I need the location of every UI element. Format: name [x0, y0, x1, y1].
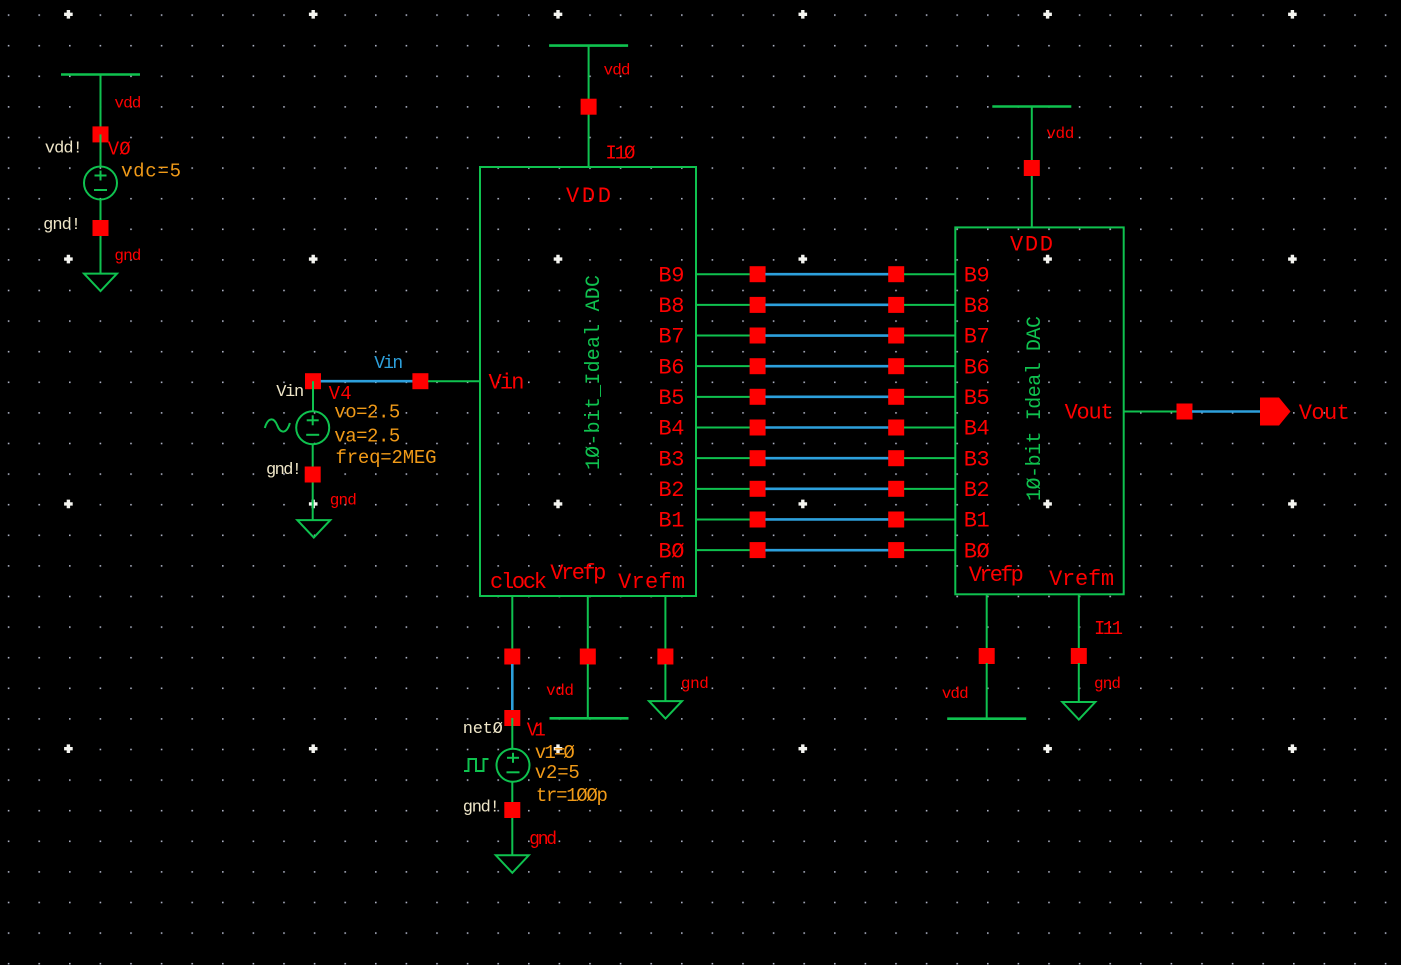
vdd supply symbol (DAC top) — [992, 107, 1071, 228]
junction square B1 right — [888, 512, 904, 528]
wire B4 from ADC — [696, 427, 750, 429]
junction square B7 left — [750, 328, 766, 344]
svg-text:gnd: gnd — [114, 247, 141, 265]
net label gnd! (cream, V1) — [463, 799, 500, 818]
junction square Vrefp (DAC) — [979, 648, 995, 664]
svg-text:B8: B8 — [658, 294, 684, 319]
wire B9 from ADC — [696, 273, 750, 275]
svg-text:netØ: netØ — [463, 720, 503, 739]
junction square B0 right — [888, 542, 904, 558]
svg-text:gnd: gnd — [330, 492, 357, 510]
value label vo=2.5 — [334, 402, 400, 424]
value label v2=5 — [535, 762, 580, 784]
svg-text:B1: B1 — [964, 509, 990, 534]
wire V0 minus — [100, 200, 102, 274]
junction square B0 left — [750, 542, 766, 558]
wire Vrefp stem (ADC) — [587, 596, 589, 657]
svg-text:v1=Ø: v1=Ø — [535, 742, 575, 764]
wire V1 minus — [511, 782, 513, 856]
instance name I10 — [605, 143, 635, 165]
wire B0 from ADC — [696, 549, 750, 551]
wire clock stem — [511, 596, 513, 657]
net label gnd (red, V4 rail) — [330, 492, 357, 510]
net label gnd (red, ADC Vrefm rail) — [681, 675, 709, 693]
svg-text:1Ø-bit_Ideal ADC: 1Ø-bit_Ideal ADC — [583, 275, 606, 470]
svg-text:B1: B1 — [658, 509, 684, 534]
wire B8 from ADC — [696, 304, 750, 306]
sine symbol of V4 — [265, 419, 290, 431]
net label gnd! (cream, V4) — [266, 461, 302, 480]
svg-text:B8: B8 — [964, 294, 990, 319]
net wire B0 (blue) — [765, 549, 888, 552]
pin label B1 (DAC) — [964, 509, 990, 534]
vdd supply symbol (ADC top) — [549, 46, 628, 167]
svg-text:B7: B7 — [964, 325, 990, 350]
pin junction square DAC VDD — [1024, 160, 1040, 176]
net wire clock-net0 (blue) — [511, 664, 514, 718]
junction square B1 left — [750, 512, 766, 528]
svg-text:Vrefp: Vrefp — [969, 563, 1024, 588]
pin label B6 (DAC) — [964, 355, 990, 380]
ground symbol (DAC Vrefm) — [1062, 702, 1095, 720]
wire B3 to DAC — [904, 457, 956, 459]
svg-text:B6: B6 — [964, 355, 990, 380]
wire B6 from ADC — [696, 365, 750, 367]
vdd supply symbol (DAC Vrefp) — [947, 717, 1026, 720]
pin label B7 (ADC) — [658, 325, 684, 350]
wire junction square Vin — [412, 373, 428, 389]
net wire B5 (blue) — [765, 396, 888, 399]
net name label Vin (blue) — [374, 354, 403, 374]
value label freq=2MEG — [336, 447, 437, 469]
svg-text:vdd!: vdd! — [45, 140, 83, 159]
vdd supply symbol (top-left) — [61, 75, 140, 135]
output pin symbol Vout — [1260, 398, 1291, 426]
svg-text:V1: V1 — [527, 720, 546, 742]
svg-text:va=2.5: va=2.5 — [334, 426, 400, 448]
instance name V1 — [527, 720, 546, 742]
svg-text:v2=5: v2=5 — [535, 762, 580, 784]
voltage source V4 (sine) — [296, 411, 329, 444]
svg-text:B2: B2 — [658, 478, 684, 503]
svg-text:B5: B5 — [964, 386, 990, 411]
net wire B3 (blue) — [765, 457, 888, 460]
wire B8 to DAC — [904, 304, 956, 306]
svg-text:Vin: Vin — [276, 383, 304, 402]
wire B7 to DAC — [904, 335, 956, 337]
pin label B5 (DAC) — [964, 386, 990, 411]
wire Vin to ADC — [428, 380, 481, 382]
junction square B6 left — [750, 358, 766, 374]
junction square B5 left — [750, 389, 766, 405]
voltage source V0 (vdc=5) — [84, 167, 117, 200]
wire Vrefp to vdd (DAC) — [986, 663, 988, 719]
svg-text:vdd: vdd — [942, 685, 969, 703]
svg-text:Vin: Vin — [374, 354, 403, 374]
junction square B4 right — [888, 420, 904, 436]
svg-text:BØ: BØ — [658, 539, 684, 564]
pin label B4 (ADC) — [658, 417, 684, 442]
vdd supply symbol (ADC Vrefp) — [550, 717, 629, 720]
junction square B4 left — [750, 420, 766, 436]
junction square B9 left — [750, 266, 766, 282]
svg-text:gnd: gnd — [1094, 675, 1121, 693]
net wire B4 (blue) — [765, 426, 888, 429]
wire junction square V4 plus / Vin corner — [305, 373, 321, 389]
wire V4 plus stem — [312, 381, 314, 411]
pin label B6 (ADC) — [658, 355, 684, 380]
svg-text:VDD: VDD — [566, 184, 611, 209]
svg-text:gnd: gnd — [529, 830, 557, 850]
net label vdd (red, DAC top rail) — [1046, 125, 1074, 143]
net wire B1 (blue) — [765, 518, 888, 521]
pin junction square V4 minus — [305, 467, 321, 483]
pin label Vrefp (ADC) — [550, 561, 606, 586]
net label vdd (red, DAC Vrefp rail) — [942, 685, 969, 703]
svg-text:gnd!: gnd! — [463, 799, 500, 818]
junction square clock — [504, 649, 520, 665]
value label vdc=5 — [121, 161, 181, 183]
svg-text:BØ: BØ — [964, 539, 990, 564]
svg-text:Vrefm: Vrefm — [618, 570, 685, 595]
ground symbol (V0) — [84, 274, 117, 292]
pin label Vrefp (DAC) — [969, 563, 1024, 588]
voltage source V1 (pulse) — [497, 749, 530, 782]
net label vdd (red, V0 rail) — [114, 95, 141, 113]
ground symbol (ADC Vrefm) — [649, 701, 682, 719]
net label gnd (red, V0 rail) — [114, 247, 141, 265]
svg-text:B9: B9 — [964, 263, 990, 288]
net label gnd! (cream, V0) — [43, 216, 81, 235]
pin label B3 (DAC) — [964, 447, 990, 472]
svg-text:Vin: Vin — [489, 371, 525, 396]
svg-text:Vrefp: Vrefp — [550, 561, 606, 586]
net label net0 (cream) — [463, 720, 503, 739]
svg-text:I11: I11 — [1094, 618, 1123, 640]
pin label B0 (DAC) — [964, 539, 990, 564]
svg-text:vdd: vdd — [1046, 125, 1074, 143]
wire V0 plus — [100, 134, 102, 166]
svg-text:B7: B7 — [658, 325, 684, 350]
junction square B3 right — [888, 450, 904, 466]
junction square B7 right — [888, 328, 904, 344]
svg-text:gnd!: gnd! — [266, 461, 302, 480]
pin label B5 (ADC) — [658, 386, 684, 411]
net label gnd (red, V1 rail) — [529, 830, 557, 850]
wire Vrefm stem (DAC) — [1078, 594, 1080, 656]
junction square Vout — [1177, 404, 1193, 420]
wire B1 from ADC — [696, 518, 750, 520]
svg-text:Vrefm: Vrefm — [1049, 567, 1114, 592]
svg-text:VØ: VØ — [108, 139, 131, 161]
pin label B9 (ADC) — [658, 263, 684, 288]
pin label VDD (ADC) — [566, 184, 611, 209]
net wire B6 (blue) — [765, 365, 888, 368]
svg-text:I1Ø: I1Ø — [605, 143, 635, 165]
wire Vrefm stem (ADC) — [664, 596, 666, 657]
svg-text:Vout: Vout — [1065, 401, 1114, 426]
net label vdd! (cream) — [45, 140, 83, 159]
wire Vrefp stem (DAC) — [986, 594, 988, 656]
svg-text:B2: B2 — [964, 478, 990, 503]
wire B2 to DAC — [904, 488, 956, 490]
wire V1 plus stem — [511, 718, 513, 749]
svg-text:B4: B4 — [658, 417, 684, 442]
DAC block I11 body — [955, 227, 1123, 594]
pin label B0 (ADC) — [658, 539, 684, 564]
net wire Vout (blue) — [1192, 410, 1260, 413]
cell label 10-bit Ideal_ADC (vertical) — [583, 275, 606, 470]
svg-text:VDD: VDD — [1010, 233, 1053, 258]
svg-text:clock: clock — [490, 570, 547, 595]
svg-text:vdc=5: vdc=5 — [121, 161, 181, 183]
svg-text:vdd: vdd — [604, 62, 631, 80]
junction square B6 right — [888, 358, 904, 374]
pin label B7 (DAC) — [964, 325, 990, 350]
pin label Vout (DAC) — [1065, 401, 1114, 426]
pin label B2 (DAC) — [964, 478, 990, 503]
wire B4 to DAC — [904, 427, 956, 429]
junction square B2 right — [888, 481, 904, 497]
instance name V0 — [108, 139, 131, 161]
wire B7 from ADC — [696, 335, 750, 337]
pin label B3 (ADC) — [658, 447, 684, 472]
svg-text:freq=2MEG: freq=2MEG — [336, 447, 437, 469]
net label gnd (red, DAC Vrefm rail) — [1094, 675, 1121, 693]
pin junction square V1 minus — [504, 802, 520, 818]
svg-text:gnd!: gnd! — [43, 216, 81, 235]
svg-text:B9: B9 — [658, 263, 684, 288]
svg-text:B3: B3 — [964, 447, 990, 472]
svg-text:1Ø-bit Ideal DAC: 1Ø-bit Ideal DAC — [1024, 316, 1047, 501]
junction square Vrefm (ADC) — [657, 649, 673, 665]
junction square B8 right — [888, 297, 904, 313]
grid major crosses — [64, 10, 1297, 753]
wire Vout from DAC — [1124, 411, 1177, 413]
svg-text:tr=1ØØp: tr=1ØØp — [536, 785, 608, 807]
wire B5 from ADC — [696, 396, 750, 398]
pin label B8 (ADC) — [658, 294, 684, 319]
wire B9 to DAC — [904, 273, 956, 275]
wire B6 to DAC — [904, 365, 956, 367]
net wire B9 (blue) — [765, 273, 888, 276]
junction square Vrefm (DAC) — [1071, 648, 1087, 664]
junction square B2 left — [750, 481, 766, 497]
net name label Vout (red) — [1299, 401, 1350, 426]
pin label Vrefm (DAC) — [1049, 567, 1114, 592]
svg-text:gnd: gnd — [681, 675, 709, 693]
wire B0 to DAC — [904, 549, 956, 551]
pin label clock (ADC) — [490, 570, 547, 595]
pin label Vrefm (ADC) — [618, 570, 685, 595]
svg-text:vdd: vdd — [114, 95, 141, 113]
junction square B8 left — [750, 297, 766, 313]
pin label B1 (ADC) — [658, 509, 684, 534]
svg-text:B4: B4 — [964, 417, 990, 442]
wire B1 to DAC — [904, 518, 956, 520]
net label vdd (red, ADC top rail) — [604, 62, 631, 80]
pin label B2 (ADC) — [658, 478, 684, 503]
svg-text:B5: B5 — [658, 386, 684, 411]
value label va=2.5 — [334, 426, 400, 448]
wire V4 minus — [312, 444, 314, 520]
svg-text:Vout: Vout — [1299, 401, 1350, 426]
net label Vin (cream) — [276, 383, 304, 402]
svg-text:B3: B3 — [658, 447, 684, 472]
net wire Vin (blue segment) — [321, 380, 421, 383]
instance name I11 — [1094, 618, 1123, 640]
pin label B9 (DAC) — [964, 263, 990, 288]
wire B3 from ADC — [696, 457, 750, 459]
pin label B8 (DAC) — [964, 294, 990, 319]
value label tr=100p — [536, 785, 608, 807]
pulse symbol of V1 — [464, 759, 489, 771]
pin label VDD (DAC) — [1010, 233, 1053, 258]
wire Vrefm to gnd (DAC) — [1078, 663, 1080, 702]
wire Vrefm to gnd (ADC) — [664, 664, 666, 701]
pin label B4 (DAC) — [964, 417, 990, 442]
net wire B8 (blue) — [765, 304, 888, 307]
ADC block I10 body — [480, 167, 696, 596]
svg-text:vdd: vdd — [546, 682, 574, 700]
junction square net0 — [504, 710, 520, 726]
ground symbol (V4) — [297, 520, 330, 538]
value label v1=0 — [535, 742, 575, 764]
cell label 10-bit Ideal DAC (vertical) — [1024, 316, 1047, 501]
wire B5 to DAC — [904, 396, 956, 398]
ground symbol (V1) — [496, 855, 529, 873]
junction square B9 right — [888, 266, 904, 282]
net label vdd (red, ADC Vrefp rail) — [546, 682, 574, 700]
svg-text:vo=2.5: vo=2.5 — [334, 402, 400, 424]
wire Vrefp to vdd (ADC) — [587, 664, 589, 718]
junction square Vrefp (ADC) — [580, 649, 596, 665]
pin junction square V0 plus — [93, 126, 109, 142]
pin junction square ADC VDD — [581, 99, 597, 115]
wire B2 from ADC — [696, 488, 750, 490]
pin label Vin (ADC) — [489, 371, 525, 396]
svg-text:B6: B6 — [658, 355, 684, 380]
pin junction square V0 minus — [93, 220, 109, 236]
instance name V4 — [329, 383, 352, 405]
net wire B7 (blue) — [765, 334, 888, 337]
junction square B5 right — [888, 389, 904, 405]
junction square B3 left — [750, 450, 766, 466]
net wire B2 (blue) — [765, 488, 888, 491]
